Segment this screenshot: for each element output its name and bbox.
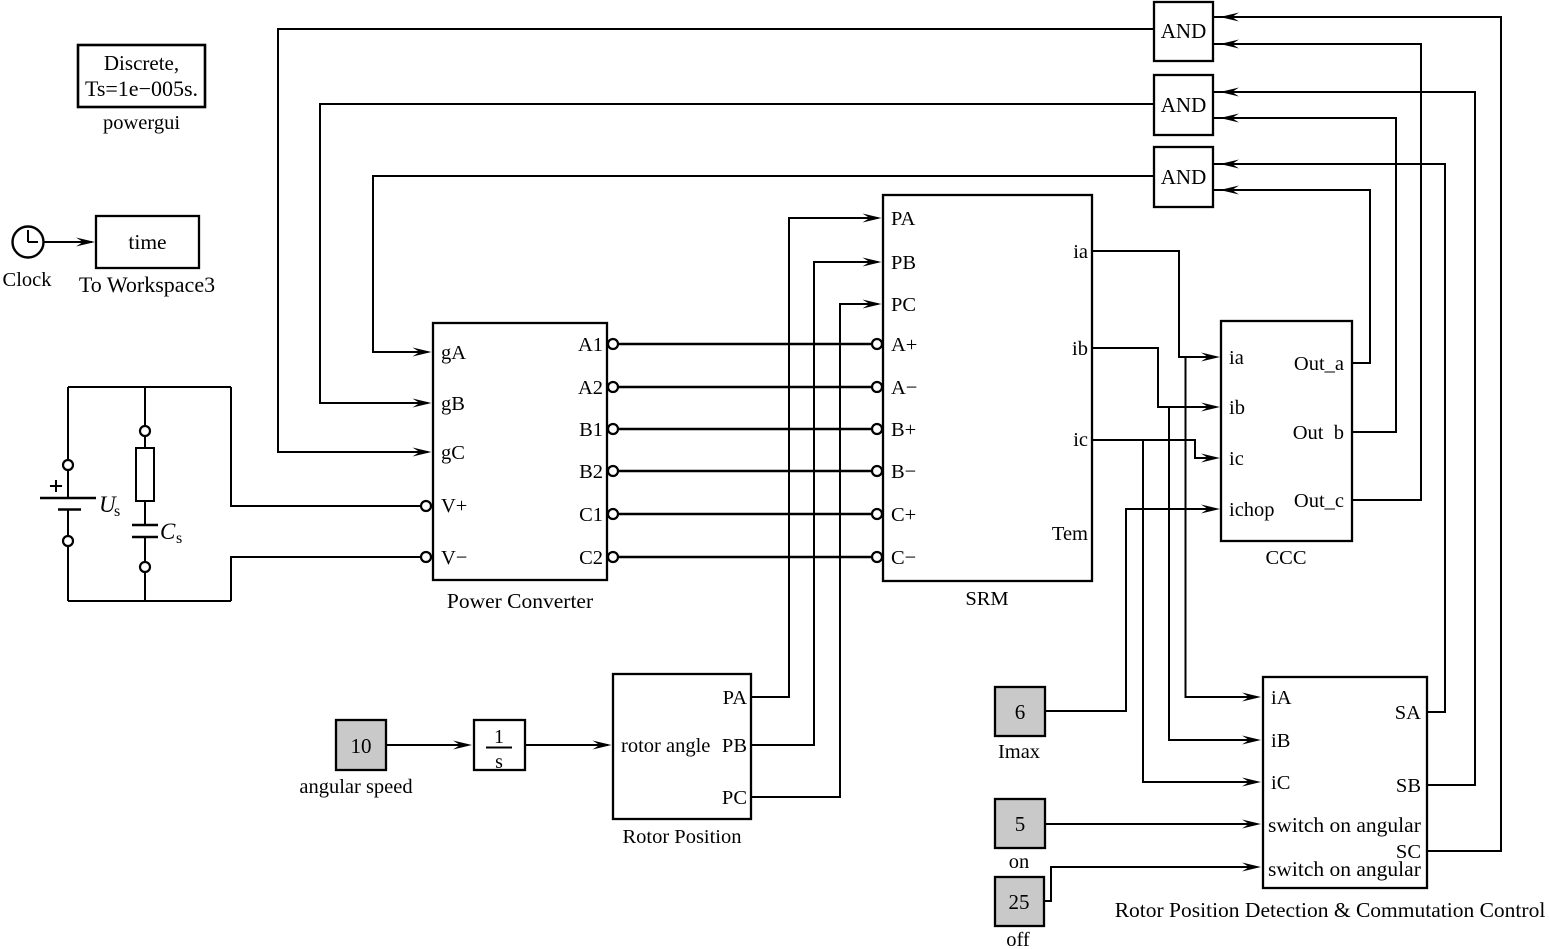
svg-text:Rotor Position Detection & Com: Rotor Position Detection & Commutation C… <box>1115 898 1546 922</box>
port circle A- <box>872 382 882 392</box>
port circle A2 <box>608 382 618 392</box>
port circle V+ <box>421 501 431 511</box>
wire source top rail <box>68 386 231 388</box>
constant 10 <box>336 720 386 770</box>
svg-text:ichop: ichop <box>1229 499 1275 521</box>
svg-text:Out_a: Out_a <box>1294 353 1344 375</box>
port circle C- <box>872 552 882 562</box>
wire branch ia to iA <box>1186 357 1257 697</box>
svg-text:10: 10 <box>351 734 372 758</box>
wire AND1 out to gC <box>278 29 1154 452</box>
svg-text:ic: ic <box>1073 429 1088 451</box>
arrowhead into rotor angle <box>593 741 612 750</box>
svg-text:iB: iB <box>1271 730 1290 752</box>
svg-text:25: 25 <box>1009 890 1030 914</box>
wire 1/s to rotor angle <box>525 744 608 746</box>
wire AND3 out to gA <box>373 176 1154 352</box>
wire B2 to B- <box>619 470 872 473</box>
CCC block <box>1221 321 1352 541</box>
clock block Clock <box>13 227 44 258</box>
wire source bottom rail <box>68 600 231 602</box>
wire C1 to C+ <box>619 513 872 516</box>
wire SRM ia to CCC ia <box>1092 251 1216 357</box>
wire to V- <box>231 557 421 601</box>
wire SRM ib to CCC ib <box>1092 348 1216 407</box>
svg-text:AND: AND <box>1161 165 1207 189</box>
arrowhead into iB <box>1242 736 1261 745</box>
wire Out_a to AND3 <box>1213 190 1370 363</box>
wire SC to AND1 <box>1213 17 1501 851</box>
port circle A1 <box>608 339 618 349</box>
svg-text:V+: V+ <box>441 495 467 517</box>
svg-text:1: 1 <box>494 726 504 748</box>
svg-text:SA: SA <box>1395 702 1421 724</box>
svg-text:C2: C2 <box>579 547 603 569</box>
port circle B1 <box>608 424 618 434</box>
svg-text:ia: ia <box>1073 241 1088 263</box>
wire Rotor PB to SRM PB <box>751 262 878 745</box>
svg-text:C: C <box>160 519 176 544</box>
arrowhead into 1/s <box>453 741 472 750</box>
svg-text:Out_c: Out_c <box>1294 490 1344 512</box>
svg-text:off: off <box>1006 929 1030 949</box>
constant 5 <box>995 799 1045 848</box>
svg-text:iC: iC <box>1271 772 1290 794</box>
arrowhead into time <box>76 238 95 247</box>
svg-text:AND: AND <box>1161 19 1207 43</box>
Rotor Position block <box>613 674 751 819</box>
arrowhead into switch on angular 1 <box>1242 820 1261 829</box>
svg-text:C+: C+ <box>891 504 916 526</box>
svg-text:s: s <box>495 751 503 773</box>
svg-text:C1: C1 <box>579 504 603 526</box>
svg-text:Out b: Out b <box>1293 422 1344 444</box>
Rotor Position Detection block <box>1263 677 1427 888</box>
arrowhead into AND1 bottom <box>1220 40 1239 49</box>
constant 6 <box>995 687 1045 736</box>
svg-text:A2: A2 <box>578 377 603 399</box>
svg-text:PB: PB <box>722 735 747 757</box>
port circle B+ <box>872 424 882 434</box>
svg-text:To Workspace3: To Workspace3 <box>79 272 215 297</box>
svg-text:angular speed: angular speed <box>299 776 412 798</box>
svg-text:A−: A− <box>891 377 917 399</box>
svg-text:PA: PA <box>723 687 748 709</box>
Power Converter block <box>433 323 607 580</box>
svg-text:B−: B− <box>891 461 916 483</box>
svg-text:PB: PB <box>891 252 916 274</box>
svg-text:ib: ib <box>1229 397 1245 419</box>
svg-text:CCC: CCC <box>1265 547 1306 569</box>
arrowhead into SRM PC <box>863 300 882 309</box>
DC source Us (battery) <box>40 387 96 601</box>
wire SRM ic to CCC ic <box>1092 440 1216 458</box>
svg-text:Ts=1e−005s.: Ts=1e−005s. <box>85 76 198 101</box>
wire SB to AND2 <box>1213 92 1475 785</box>
wire 6 to ichop <box>1045 509 1216 711</box>
wire Clock to time <box>44 241 93 243</box>
port circle C+ <box>872 509 882 519</box>
svg-text:Imax: Imax <box>998 741 1040 763</box>
svg-text:PC: PC <box>891 294 916 316</box>
wire A1 to A+ <box>619 343 872 346</box>
arrowhead into AND3 top <box>1220 160 1239 169</box>
AND gate 1 <box>1154 2 1213 61</box>
arrowhead into switch on angular 2 <box>1242 863 1261 872</box>
wire Out_b to AND2 <box>1213 118 1396 432</box>
svg-text:V−: V− <box>441 547 467 569</box>
wire 10 to 1/s <box>386 744 468 746</box>
svg-text:SB: SB <box>1396 775 1421 797</box>
arrowhead into AND3 bottom <box>1220 186 1239 195</box>
snubber branch Cs (resistor + capacitor) <box>132 387 158 601</box>
wire Out_c to AND1 <box>1213 44 1421 500</box>
wire 25 to switch on angular 2 <box>1044 867 1256 901</box>
svg-text:PC: PC <box>722 787 747 809</box>
svg-text:time: time <box>128 230 166 254</box>
svg-text:Tem: Tem <box>1052 523 1088 545</box>
svg-text:B2: B2 <box>579 461 603 483</box>
svg-text:AND: AND <box>1161 93 1207 117</box>
wire AND2 out to gB <box>320 104 1154 403</box>
svg-text:gC: gC <box>441 442 465 464</box>
SRM block <box>883 195 1092 581</box>
wire B1 to B+ <box>619 428 872 431</box>
svg-text:Rotor Position: Rotor Position <box>622 826 741 848</box>
arrowhead into AND1 top <box>1220 13 1239 22</box>
arrowhead into gB <box>413 399 432 408</box>
arrowhead into AND2 bottom <box>1220 114 1239 123</box>
wire 5 to switch on angular 1 <box>1045 823 1256 825</box>
svg-text:rotor angle: rotor angle <box>621 735 710 757</box>
port circle V- <box>421 552 431 562</box>
wire to V+ <box>231 387 421 506</box>
svg-text:gA: gA <box>441 342 466 364</box>
AND gate 2 <box>1154 75 1213 135</box>
svg-text:Power Converter: Power Converter <box>447 589 593 613</box>
svg-text:B+: B+ <box>891 419 916 441</box>
svg-text:s: s <box>176 530 182 547</box>
arrowhead into gC <box>413 448 432 457</box>
svg-text:A+: A+ <box>891 334 917 356</box>
svg-text:ia: ia <box>1229 347 1244 369</box>
port circle B- <box>872 466 882 476</box>
arrowhead into iA <box>1242 693 1261 702</box>
wire A2 to A- <box>619 386 872 389</box>
svg-text:switch on angular: switch on angular <box>1268 813 1421 837</box>
svg-text:6: 6 <box>1015 700 1026 724</box>
powergui block U_powergui <box>78 45 205 107</box>
svg-text:iA: iA <box>1271 687 1292 709</box>
integrator 1/s <box>474 720 525 773</box>
port circle B2 <box>608 466 618 476</box>
wire Rotor PC to SRM PC <box>751 304 878 797</box>
AND gate 3 <box>1154 147 1213 207</box>
svg-text:A1: A1 <box>578 334 603 356</box>
svg-text:ic: ic <box>1229 448 1244 470</box>
svg-text:gB: gB <box>441 393 465 415</box>
wire C2 to C- <box>619 556 872 559</box>
svg-text:s: s <box>114 503 120 520</box>
arrowhead into CCC ic <box>1201 454 1220 463</box>
arrowhead into SRM PA <box>863 214 882 223</box>
arrowhead into ichop <box>1201 505 1220 514</box>
arrowhead into CCC ia <box>1201 353 1220 362</box>
svg-text:ib: ib <box>1072 338 1088 360</box>
wire Rotor PA to SRM PA <box>751 218 878 697</box>
arrowhead into iC <box>1242 778 1261 787</box>
svg-text:B1: B1 <box>579 419 603 441</box>
port circle C1 <box>608 509 618 519</box>
To Workspace3 block (time) <box>96 216 199 268</box>
wire branch ic to iC <box>1143 440 1256 782</box>
wire SA to AND3 <box>1213 164 1445 712</box>
arrowhead into CCC ib <box>1201 403 1220 412</box>
svg-text:Clock: Clock <box>3 269 53 291</box>
wire branch ib to iB <box>1169 407 1256 740</box>
svg-text:on: on <box>1009 851 1030 873</box>
svg-text:5: 5 <box>1015 812 1026 836</box>
svg-text:SRM: SRM <box>965 588 1008 610</box>
port circle A+ <box>872 339 882 349</box>
svg-text:SC: SC <box>1396 841 1421 863</box>
svg-text:powergui: powergui <box>103 112 180 134</box>
port circle C2 <box>608 552 618 562</box>
svg-text:PA: PA <box>891 208 916 230</box>
arrowhead into SRM PB <box>863 258 882 267</box>
constant 25 <box>995 877 1044 926</box>
arrowhead into gA <box>413 348 432 357</box>
svg-text:Discrete,: Discrete, <box>104 51 179 75</box>
svg-text:C−: C− <box>891 547 916 569</box>
arrowhead into AND2 top <box>1220 88 1239 97</box>
